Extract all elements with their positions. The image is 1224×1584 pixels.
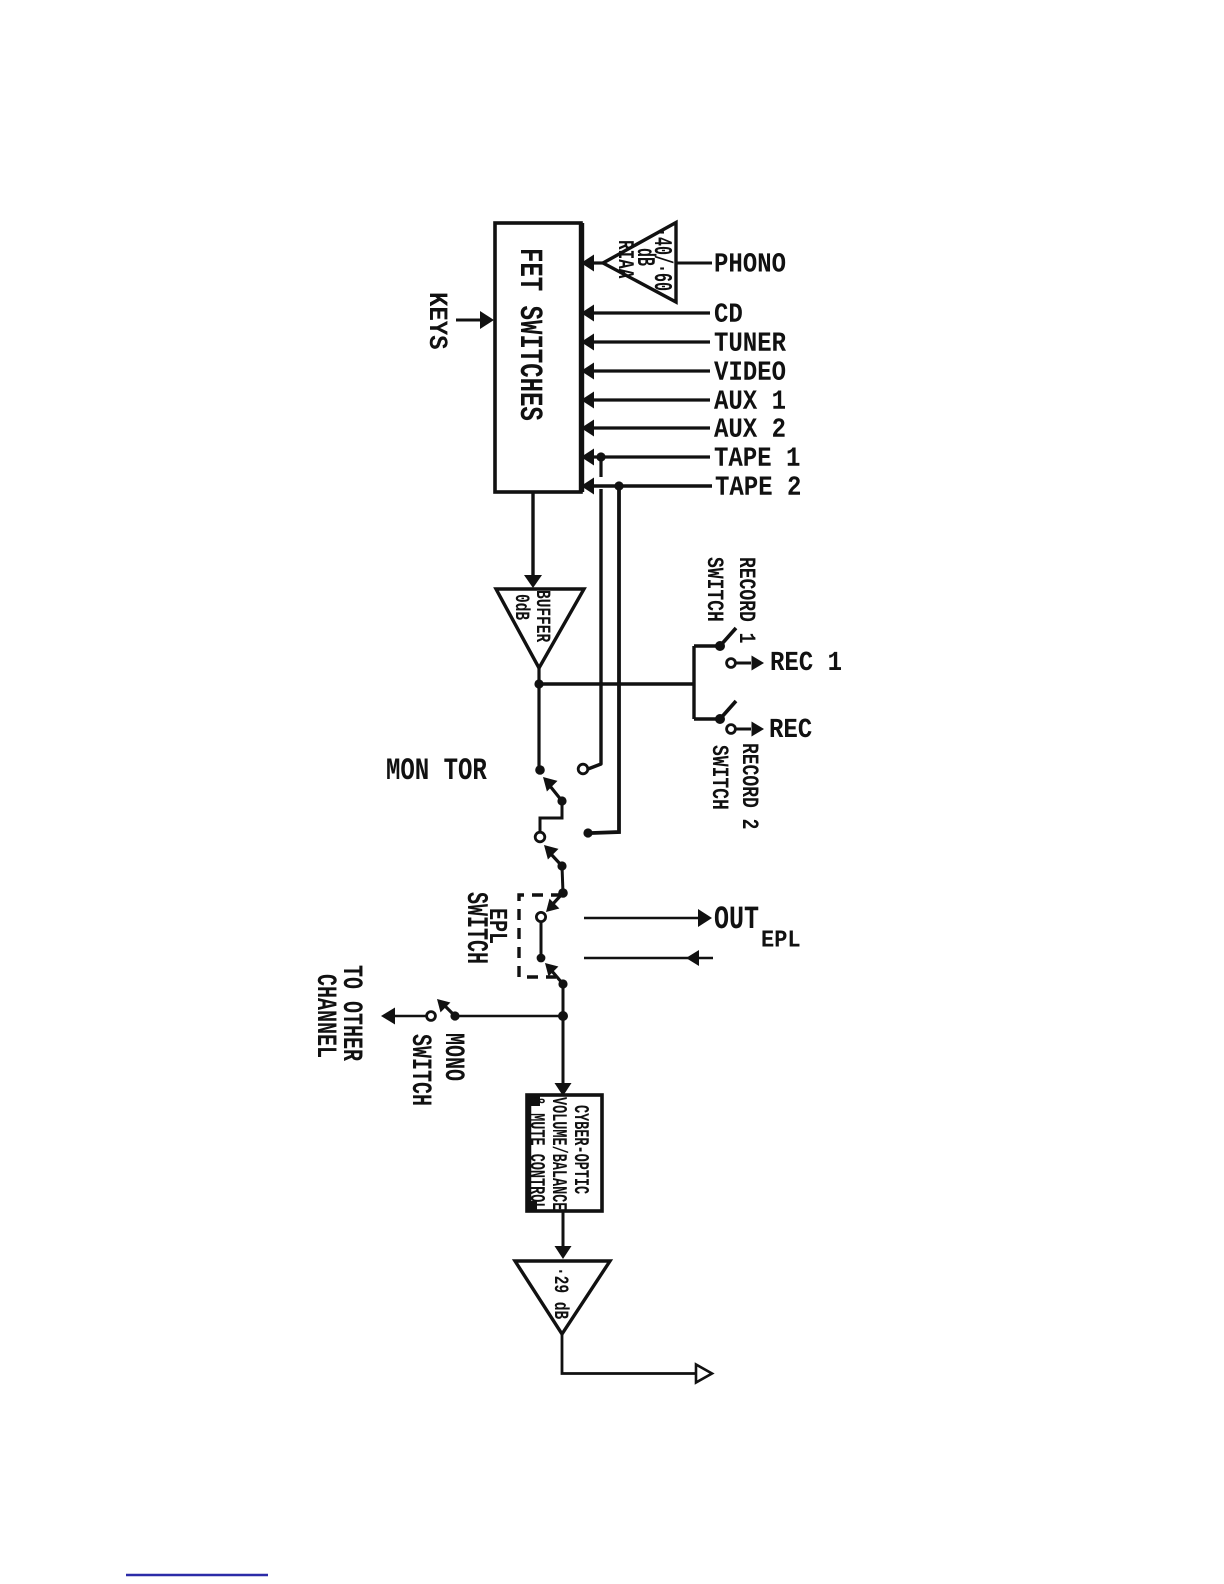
op-amp U1 phono preamp [603,223,676,303]
label AUX 1 [714,391,785,409]
switch RECORD 1 arm [720,628,736,646]
node EPL contact bottom [537,954,546,963]
op-amp buffer [496,589,584,668]
node mono switch pivot [450,1011,459,1020]
value label +40/+60 [655,231,674,290]
op-amp output +29dB [515,1261,610,1334]
wire CD input [588,311,710,314]
label SWITCH (record 1) [708,557,724,620]
wire REC 2 output [736,728,751,731]
wire REC 1 output [736,662,751,665]
node TAPE1 monitor contact (open) [578,764,588,774]
label RECORD 1 [740,558,756,642]
wire VIDEO input [588,369,710,372]
wire EPL OUT [584,917,698,919]
wire buffer output [537,668,540,770]
wire record bracket [692,646,695,719]
keys input wire [456,319,483,322]
label OUT [715,906,758,928]
switch EPL arm bottom [551,970,563,984]
node EPL pivot bottom [558,979,567,988]
node monitor pivot 2 [557,861,566,870]
node REC 2 contact (open) [727,725,736,734]
wire TUNER input [588,340,710,343]
node TAPE 1 junction [596,452,605,461]
label TAPE 1 [715,448,800,466]
label MONO [446,1034,465,1080]
wire preamp output to FET switches [590,261,604,264]
wire volume control to output amp [562,1211,565,1251]
wire monitor to EPL [562,866,563,893]
label FET SWITCHES [521,250,543,420]
block FET SWITCHES [495,223,581,492]
switch monitor arm 1 [550,786,562,801]
value label dB [638,249,657,266]
wire EPL to mono node [562,984,565,1016]
wire EPL link [540,921,543,958]
footer blue rule [126,1574,268,1577]
node EPL contact top (open) [536,912,545,921]
wire AUX 1 input [588,398,710,401]
node buffer output junction [534,679,543,688]
wire mono node to volume control [562,1016,565,1088]
output arrowhead (open) [696,1365,712,1383]
switch RECORD 2 pivot [715,714,725,724]
label RECORD 2 [743,744,759,828]
wire mono tap [457,1015,563,1018]
label SWITCH (EPL) [468,892,488,962]
switch mono arm [444,1005,455,1016]
wire TAPE 1 stub down [599,457,602,477]
wire TAPE 1 input [588,455,710,458]
label TAPE 2 [716,476,800,494]
block CYBER-OPTIC VOLUME/BALANCE & MUTE CONTROL [527,1095,602,1211]
wire TAPE 2 input [588,484,712,488]
label KEYS [430,294,448,349]
wire AUX 2 input [588,426,710,429]
node monitor pivot 1 [557,796,566,805]
node EPL top junction [558,888,568,898]
node REC 1 contact (open) [727,659,736,668]
value label RIAA [619,241,634,278]
label EPL [490,909,507,943]
node monitor contact A [535,765,545,775]
wire TAPE 1 to monitor contact [588,489,601,769]
wire EPL return [584,957,713,959]
wire to other channel [394,1015,426,1018]
switch EPL arm top [551,893,563,906]
label REC [771,719,812,738]
label TO OTHER [344,966,363,1061]
wire to record switches [539,682,694,685]
label SWITCH (record 2) [713,745,729,808]
label CYBER-OPTIC [575,1106,589,1194]
EPL switch dashed box [519,895,562,977]
node mono junction [558,1011,568,1021]
label REC 1 [772,652,841,671]
label MONITOR [387,758,487,779]
label EPL (port) [762,931,799,947]
label VIDEO [714,361,785,380]
value label +29 dB [555,1270,570,1319]
value label BUFFER [537,591,551,642]
wire output [562,1334,696,1374]
label MUTE CONTROL [531,1097,545,1210]
label AUX 2 [714,418,785,437]
wire monitor link 1 [540,801,562,833]
label PHONO [716,253,786,272]
label CHANNEL [318,975,337,1057]
node TAPE2 monitor contact [583,828,592,837]
label TUNER [715,333,786,351]
label CD [715,303,742,322]
label VOLUME/BALANCE [553,1097,568,1210]
switch monitor arm 2 [550,853,562,866]
wire FET switches to buffer [531,492,534,581]
switch RECORD 1 pivot [715,641,725,651]
switch RECORD 2 arm [720,701,736,719]
value label 0dB [516,595,531,620]
label SWITCH (mono) [413,1034,432,1104]
node mono contact (open) [427,1012,436,1021]
wire TAPE 2 to monitor contact [592,489,619,833]
wire PHONO input [676,262,712,265]
node TAPE 2 junction [614,481,623,490]
node monitor contact B (open) [535,832,545,842]
